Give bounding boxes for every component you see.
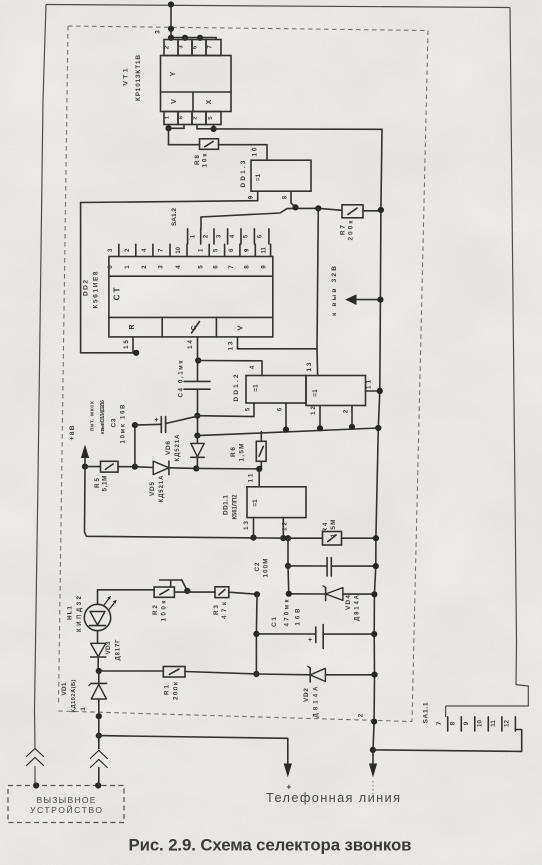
svg-text:КР1013КТ1В: КР1013КТ1В xyxy=(135,55,142,101)
svg-text:3: 3 xyxy=(155,30,162,34)
svg-text:2: 2 xyxy=(193,116,199,119)
svg-text:КД521А: КД521А xyxy=(175,434,181,462)
svg-text:Телефонная линия: Телефонная линия xyxy=(266,790,400,805)
svg-text:10: 10 xyxy=(477,720,484,727)
svg-text:100М: 100М xyxy=(263,559,270,578)
svg-text:пит. мксх: пит. мксх xyxy=(90,400,96,431)
svg-text:10к: 10к xyxy=(202,153,209,168)
svg-text:15: 15 xyxy=(123,340,130,349)
svg-text:11: 11 xyxy=(366,379,373,389)
svg-text:8: 8 xyxy=(450,721,457,725)
svg-text:200к: 200к xyxy=(173,681,180,700)
svg-text:=1: =1 xyxy=(255,173,262,181)
svg-text:Д817Г: Д817Г xyxy=(116,639,122,661)
svg-text:Д814А: Д814А xyxy=(355,594,361,621)
svg-text:C2: C2 xyxy=(254,562,261,571)
svg-text:16В: 16В xyxy=(296,608,302,626)
svg-text:5,1М: 5,1М xyxy=(102,476,109,492)
svg-text:5: 5 xyxy=(197,265,204,269)
svg-text:DD1.1: DD1.1 xyxy=(223,495,230,515)
svg-text:VD1: VD1 xyxy=(61,682,68,695)
svg-text:УСТРОЙСТВО: УСТРОЙСТВО xyxy=(30,804,102,815)
svg-text:6: 6 xyxy=(213,265,220,269)
svg-text:11: 11 xyxy=(490,720,497,727)
svg-text:=1: =1 xyxy=(312,389,319,397)
svg-text:К561ЛП2: К561ЛП2 xyxy=(233,494,239,520)
svg-text:+: + xyxy=(308,637,312,644)
svg-text:V: V xyxy=(238,325,245,330)
svg-text:+: + xyxy=(154,415,159,424)
svg-text:11: 11 xyxy=(262,246,268,253)
svg-text:13: 13 xyxy=(243,521,250,530)
svg-text:1: 1 xyxy=(124,265,131,269)
svg-text:V: V xyxy=(171,99,178,104)
svg-text:0: 0 xyxy=(107,265,114,269)
svg-text:Y: Y xyxy=(168,71,177,76)
svg-text:7: 7 xyxy=(228,265,235,269)
svg-text:13: 13 xyxy=(228,341,235,350)
svg-text:100к: 100к xyxy=(161,600,168,622)
svg-text:9: 9 xyxy=(463,721,470,725)
svg-text:DD1.2: DD1.2 xyxy=(233,374,240,401)
svg-text:R: R xyxy=(129,324,136,329)
svg-text:7: 7 xyxy=(436,721,443,725)
svg-text:14: 14 xyxy=(187,340,194,349)
svg-text:DD2: DD2 xyxy=(83,280,90,296)
svg-text:10: 10 xyxy=(252,147,259,156)
svg-text:VD3: VD3 xyxy=(105,641,112,654)
svg-text:1,5М: 1,5М xyxy=(330,520,337,538)
svg-text:4: 4 xyxy=(175,265,182,269)
svg-text:SA1.2: SA1.2 xyxy=(171,208,178,226)
svg-text:DD1.3: DD1.3 xyxy=(240,160,247,187)
svg-text:+8В: +8В xyxy=(69,425,76,440)
svg-text:1,5М: 1,5М xyxy=(239,444,246,462)
svg-text:C4 0,1мк: C4 0,1мк xyxy=(178,360,185,398)
svg-text:X: X xyxy=(206,99,213,104)
svg-text:КД521А: КД521А xyxy=(159,475,165,503)
svg-text:8: 8 xyxy=(244,265,251,269)
svg-text:=1: =1 xyxy=(253,384,260,392)
svg-text:12: 12 xyxy=(504,720,511,727)
svg-text:VT1: VT1 xyxy=(123,68,130,85)
svg-text:47к: 47к xyxy=(221,601,228,619)
svg-text:HL1: HL1 xyxy=(67,606,74,620)
svg-text:3: 3 xyxy=(158,265,165,269)
svg-text:13: 13 xyxy=(306,362,313,371)
svg-text:C3: C3 xyxy=(111,418,118,427)
svg-text:12: 12 xyxy=(310,406,317,415)
svg-text:КД102А(Б): КД102А(Б) xyxy=(71,679,77,712)
svg-text:VD6: VD6 xyxy=(165,441,172,455)
svg-text:12: 12 xyxy=(282,522,289,531)
svg-text:SA1.1: SA1.1 xyxy=(423,702,430,723)
svg-text:9: 9 xyxy=(261,265,268,269)
svg-text:200к: 200к xyxy=(348,220,355,241)
svg-text:=1: =1 xyxy=(252,499,259,507)
svg-text:2: 2 xyxy=(141,265,148,269)
svg-text:11: 11 xyxy=(248,473,255,482)
svg-text:VD2: VD2 xyxy=(303,688,310,702)
svg-text:10: 10 xyxy=(176,246,182,253)
svg-text:Рис. 2.9. Схема селектора звон: Рис. 2.9. Схема селектора звонков xyxy=(129,836,412,855)
svg-text:к выв D1/14,D2/16: к выв D1/14,D2/16 xyxy=(100,400,106,434)
svg-text:VD5: VD5 xyxy=(149,482,156,496)
svg-text:VD4: VD4 xyxy=(345,595,352,610)
svg-text:ВЫЗЫВНОЕ: ВЫЗЫВНОЕ xyxy=(37,795,96,805)
